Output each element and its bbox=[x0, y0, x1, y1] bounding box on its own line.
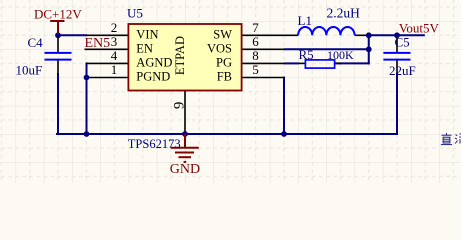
svg-text:SW: SW bbox=[213, 27, 232, 41]
svg-text:5: 5 bbox=[252, 62, 259, 77]
svg-text:100K: 100K bbox=[327, 48, 354, 62]
svg-text:U5: U5 bbox=[127, 6, 143, 21]
svg-text:1: 1 bbox=[111, 62, 118, 77]
svg-text:C4: C4 bbox=[28, 35, 44, 50]
svg-text:3: 3 bbox=[111, 34, 118, 49]
svg-text:2.2uH: 2.2uH bbox=[327, 5, 361, 20]
svg-text:9: 9 bbox=[171, 102, 187, 110]
svg-text:TPS62173: TPS62173 bbox=[128, 137, 181, 151]
svg-text:L1: L1 bbox=[298, 13, 312, 28]
svg-text:DC+12V: DC+12V bbox=[34, 6, 82, 21]
svg-text:Vout5V: Vout5V bbox=[399, 21, 440, 36]
svg-text:6: 6 bbox=[252, 34, 259, 49]
svg-text:10uF: 10uF bbox=[16, 63, 43, 78]
svg-text:7: 7 bbox=[252, 20, 259, 35]
svg-text:GND: GND bbox=[170, 162, 200, 177]
svg-text:EN5: EN5 bbox=[85, 36, 111, 51]
svg-text:8: 8 bbox=[252, 48, 259, 63]
svg-text:PG: PG bbox=[216, 56, 232, 70]
svg-text:4: 4 bbox=[111, 48, 118, 63]
svg-text:AGND: AGND bbox=[136, 56, 172, 70]
svg-text:FB: FB bbox=[217, 70, 232, 84]
svg-text:VIN: VIN bbox=[136, 27, 158, 41]
svg-text:ETPAD: ETPAD bbox=[173, 36, 187, 75]
svg-text:VOS: VOS bbox=[207, 42, 232, 56]
svg-text:R5: R5 bbox=[299, 47, 314, 62]
svg-text:C5: C5 bbox=[395, 35, 410, 50]
svg-text:PGND: PGND bbox=[136, 70, 170, 84]
svg-text:22uF: 22uF bbox=[389, 63, 416, 78]
svg-text:EN: EN bbox=[136, 42, 153, 56]
svg-text:2: 2 bbox=[111, 20, 118, 35]
